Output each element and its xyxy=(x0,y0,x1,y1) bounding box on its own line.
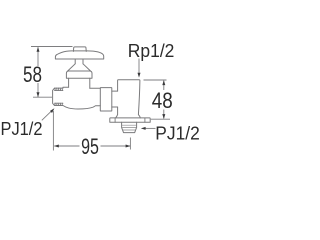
dim 48 extension line top xyxy=(144,79,167,81)
svg-text:PJ1/2: PJ1/2 xyxy=(1,119,43,139)
svg-text:58: 58 xyxy=(23,62,42,87)
dim 58 extension line bottom xyxy=(33,96,52,98)
inlet thread hatch PJ1/2 xyxy=(55,88,63,105)
dim 95 extension line left xyxy=(52,111,54,151)
svg-text:95: 95 xyxy=(81,134,99,159)
riser body xyxy=(116,80,141,118)
stem xyxy=(75,59,83,64)
handle wheel xyxy=(55,51,103,59)
svg-text:PJ1/2: PJ1/2 xyxy=(155,123,200,143)
arrow 58 up xyxy=(37,47,40,52)
arrow 48 up xyxy=(162,80,165,85)
valve neck xyxy=(69,78,90,88)
dim 48 extension line bottom xyxy=(151,118,170,120)
handle cap xyxy=(73,47,86,52)
arrow 95 left xyxy=(54,145,59,148)
packing nut xyxy=(66,71,92,78)
svg-text:48: 48 xyxy=(152,88,173,113)
leader line PJ1/2 left xyxy=(42,111,52,121)
arrow 95 right xyxy=(126,145,131,148)
dim 58 line xyxy=(37,47,39,97)
dim 48 line xyxy=(163,81,165,119)
arrow PJ1/2 left NE xyxy=(50,108,54,113)
arrow 48 down xyxy=(162,114,165,119)
nipple thread PJ1/2 xyxy=(122,122,137,132)
coupling nut xyxy=(100,88,112,111)
wall flange xyxy=(110,118,150,122)
dim 58 extension line top xyxy=(31,46,73,48)
arrow Rp1/2 down xyxy=(138,73,141,78)
leader line Rp1/2 xyxy=(138,59,140,75)
dim 95 extension line right xyxy=(129,138,131,150)
arrow PJ1/2 right west xyxy=(141,127,146,130)
dim 95 line xyxy=(54,145,130,147)
arrow 58 down xyxy=(37,92,40,97)
svg-text:Rp1/2: Rp1/2 xyxy=(128,41,175,61)
adapter step xyxy=(112,91,118,107)
bonnet cone xyxy=(68,64,91,71)
valve body outline xyxy=(53,87,101,109)
leader line PJ1/2 right xyxy=(145,127,156,129)
